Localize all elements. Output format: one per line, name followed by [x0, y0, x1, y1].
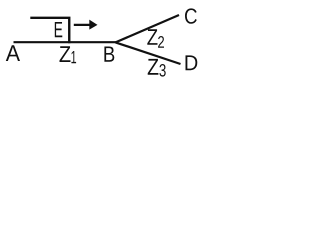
arrow: wave propagation direction, head [89, 20, 97, 30]
arrow: wave propagation direction, shaft [74, 24, 90, 26]
wire: source step (top line and vertical drop of E box) [30, 18, 69, 44]
label Z2 subscript 2 [158, 36, 164, 48]
wire: branch line B to C (impedance Z2) [116, 15, 180, 42]
node C [185, 8, 197, 23]
node A [6, 45, 20, 61]
label Z3 subscript 3 [159, 64, 165, 77]
label Z1 impedance [60, 46, 71, 62]
label Z2 impedance [147, 29, 157, 45]
wire: main transmission line from A to junction B [14, 41, 116, 43]
label E (source) [55, 22, 63, 37]
node B [104, 47, 114, 62]
label Z3 impedance [148, 59, 159, 75]
wire: branch line B to D (impedance Z3) [116, 42, 181, 64]
label Z1 subscript 1 [71, 51, 76, 63]
node D [186, 55, 198, 70]
